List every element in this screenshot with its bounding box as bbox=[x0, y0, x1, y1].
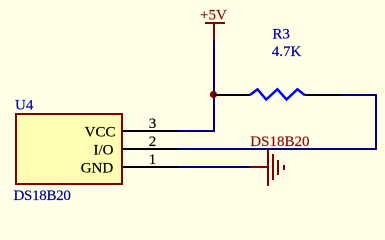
svg-text:GND: GND bbox=[81, 161, 114, 177]
pin 2 (I/O) bbox=[123, 148, 179, 150]
svg-text:4.7K: 4.7K bbox=[272, 44, 302, 60]
power port stem bbox=[213, 24, 215, 41]
svg-text:R3: R3 bbox=[272, 26, 290, 42]
ground bar 1 bbox=[267, 150, 269, 186]
svg-text:3: 3 bbox=[149, 116, 157, 132]
ground stub bbox=[250, 166, 267, 168]
wire GND pin to ground bbox=[179, 166, 251, 168]
svg-text:DS18B20: DS18B20 bbox=[250, 134, 309, 150]
junction dot bbox=[210, 91, 217, 98]
resistor R3 right pin bbox=[305, 94, 341, 96]
resistor R3 left pin bbox=[214, 94, 250, 96]
svg-text:+5V: +5V bbox=[200, 8, 227, 24]
resistor R3 zigzag body bbox=[250, 89, 305, 99]
pin 3 (VCC) bbox=[123, 130, 179, 132]
ground bar 2 bbox=[272, 154, 274, 180]
power port bar bbox=[205, 22, 225, 24]
wire +5V down to VCC pin bbox=[179, 41, 215, 132]
ground bar 4 bbox=[283, 165, 285, 170]
wire resistor right, down and back to I/O pin bbox=[179, 95, 377, 149]
ground bar 3 bbox=[277, 160, 279, 175]
svg-text:I/O: I/O bbox=[94, 143, 114, 159]
svg-text:1: 1 bbox=[149, 152, 157, 168]
pin 1 (GND) bbox=[123, 166, 179, 168]
svg-text:2: 2 bbox=[149, 134, 157, 150]
svg-text:DS18B20: DS18B20 bbox=[14, 188, 71, 204]
svg-text:VCC: VCC bbox=[85, 125, 116, 141]
component U4 body bbox=[16, 114, 122, 184]
svg-text:U4: U4 bbox=[15, 98, 34, 114]
